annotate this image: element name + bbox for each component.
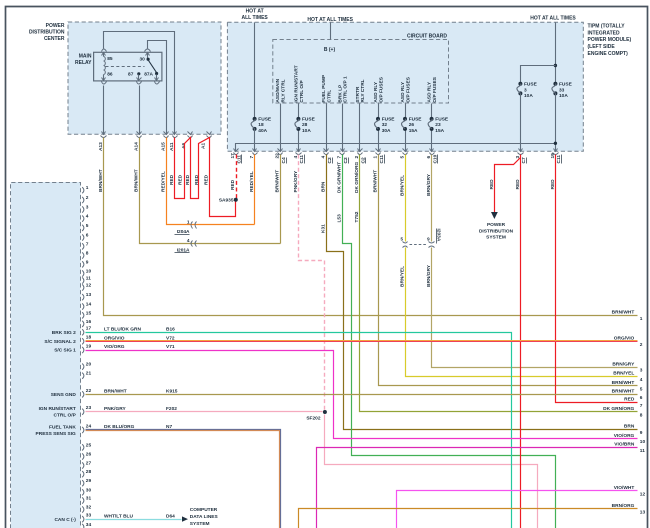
svg-text:17: 17 [230,153,236,159]
svg-text:RED: RED [185,174,191,185]
wire BRN K31 from TIPM pin4 C2 to row9 [327,155,638,430]
svg-text:RED: RED [515,179,521,190]
fuse 3 10A [518,82,522,86]
svg-text:FUSE: FUSE [258,116,272,122]
wire DK BLU/ORG N7 from pin24 [86,430,281,528]
svg-text:SA935: SA935 [219,198,234,204]
svg-text:PNK/GRY: PNK/GRY [293,170,299,192]
svg-text:CTRL O/P 1: CTRL O/P 1 [343,76,349,103]
svg-text:18: 18 [258,122,264,128]
svg-text:7: 7 [337,156,343,159]
svg-text:SYSTEM: SYSTEM [486,235,506,241]
svg-text:SF202: SF202 [306,415,320,421]
svg-text:26: 26 [86,452,92,458]
svg-text:BRN/GRY: BRN/GRY [612,361,635,367]
svg-text:33: 33 [86,513,92,519]
svg-text:28: 28 [86,469,92,475]
wire BRN/WHT from A13 to right edge row1 [104,138,638,316]
bus wire fuse33 to pin17 [236,144,556,151]
svg-text:19: 19 [86,343,92,349]
svg-text:19: 19 [550,153,556,159]
svg-text:RED: RED [194,174,200,185]
wire BRN/WHT from TIPM pin1 C11 to row5 [379,155,638,386]
wire VIO/WHT row12 from bottom [397,491,638,528]
svg-text:87A: 87A [144,71,153,77]
junction bus at fuse33 wire [554,142,557,145]
svg-text:13: 13 [640,509,646,515]
wire RED from TIPM pin19 C11 to row7 [556,155,638,403]
svg-text:12: 12 [640,492,646,498]
inline connector I204A [191,222,193,229]
svg-text:17: 17 [86,326,92,332]
svg-text:29: 29 [86,478,92,484]
svg-text:16: 16 [86,319,92,325]
svg-text:BRN/WHT: BRN/WHT [104,389,127,395]
svg-text:F202: F202 [166,406,177,412]
svg-text:RED/YEL: RED/YEL [160,171,166,192]
svg-text:1: 1 [86,185,89,191]
wire BRN/WHT K915 from pin22 row6 [86,394,638,396]
svg-text:PRESS SENS SIG: PRESS SENS SIG [36,431,77,437]
wire VIO/ORG V71 from pin19 to row10 [86,351,638,439]
svg-text:DK GRN/ORG: DK GRN/ORG [354,162,360,193]
svg-text:CENTER: CENTER [44,36,65,42]
TIPM bottom terminals [234,149,239,152]
relay terminal arcs and arrows [102,49,107,52]
svg-text:30A: 30A [382,128,391,134]
svg-text:2: 2 [86,195,89,201]
svg-text:3: 3 [524,87,527,93]
fuse 26 15A [403,117,407,121]
svg-text:ASD RLY: ASD RLY [373,81,379,102]
svg-text:33: 33 [559,87,565,93]
svg-text:FUSE: FUSE [559,82,573,88]
wire PNK/GRY from pin23 to SF202 [86,411,323,413]
svg-text:O/P FUSES: O/P FUSES [405,76,411,102]
svg-text:BRN/GRY: BRN/GRY [426,264,432,287]
svg-text:RELAY: RELAY [75,60,92,66]
svg-text:12: 12 [86,283,92,289]
wire relay 86 to A13 (gray) [103,86,105,134]
wire RED dashed from TIPM pin17 to SA935 [236,155,238,199]
svg-text:FUSE: FUSE [382,116,396,122]
svg-text:22: 22 [86,388,92,394]
svg-text:D64: D64 [166,513,175,519]
svg-text:POWER: POWER [46,23,65,29]
svg-text:BRN/WHT: BRN/WHT [612,310,635,316]
svg-text:ASD RLY: ASD RLY [427,81,433,102]
svg-text:3: 3 [86,205,89,211]
svg-text:POWER: POWER [487,222,506,228]
wire BRN/ORG row13 from bottom [299,509,638,528]
svg-text:RLY CTRL: RLY CTRL [280,79,286,102]
svg-text:SYSTEM: SYSTEM [190,521,210,527]
svg-text:32: 32 [86,505,92,511]
wire RED from TIPM pin3 C7 to bottom [520,155,522,528]
svg-text:I204A: I204A [177,229,190,235]
power distribution center box [68,22,221,134]
svg-text:BRN/YEL: BRN/YEL [613,371,634,377]
svg-text:A15: A15 [160,142,166,151]
svg-text:28: 28 [302,122,308,128]
svg-text:BRN/WHT: BRN/WHT [612,380,635,386]
svg-text:7: 7 [640,403,643,409]
svg-text:32: 32 [382,122,388,128]
svg-text:VIO/ORG: VIO/ORG [104,344,125,350]
svg-text:1: 1 [187,219,190,225]
wire BRN/WHT from TIPM pin22 C4 [280,155,282,244]
wire LT BLU/DK GRN B16 from pin17 [86,333,512,528]
svg-text:DATA LINES: DATA LINES [190,514,219,520]
relay pin 87 terminal [137,72,140,75]
svg-text:N7: N7 [166,424,172,430]
svg-text:4: 4 [187,238,190,244]
svg-text:20: 20 [86,362,92,368]
svg-text:HOT AT ALL TIMES: HOT AT ALL TIMES [530,16,576,22]
wire DK GRN/WHT L53 from TIPM pin7 C2 [343,155,556,528]
svg-text:25: 25 [86,442,92,448]
svg-text:2: 2 [640,342,643,348]
splice SA935 [234,198,238,202]
svg-text:3: 3 [640,368,643,374]
svg-text:87: 87 [128,71,134,77]
svg-text:RED: RED [177,174,183,185]
svg-text:DK GRN/WHT: DK GRN/WHT [337,162,343,193]
wire hot-right to fuse 33 [555,23,557,84]
svg-text:COMPUTER: COMPUTER [190,507,218,513]
svg-text:CTRL O/P: CTRL O/P [53,413,76,419]
svg-text:ASD/MAIN: ASD/MAIN [275,78,281,102]
wire PNK/GRY dashed from TIPM pin4 C11 to SF202 [299,155,325,411]
svg-text:BRK LP: BRK LP [337,84,343,103]
wire BRN/GRY from TIPM pin6 C10 to row3 [431,155,433,242]
svg-text:O/P FUSES: O/P FUSES [432,76,438,102]
PDC bottom terminals A13 A14 A15 A11 A6 A1 [102,132,106,135]
inline connector I203A pin5 [403,242,408,244]
svg-text:VIO/WHT: VIO/WHT [614,485,635,491]
svg-text:10A: 10A [559,93,568,99]
svg-text:POWER MODULE): POWER MODULE) [588,37,632,43]
svg-text:IGN RUN/START: IGN RUN/START [39,406,76,412]
svg-text:15A: 15A [409,128,418,134]
svg-text:A1: A1 [201,143,207,149]
svg-text:IGN RUN/START: IGN RUN/START [293,65,299,102]
svg-text:14: 14 [86,302,92,308]
wire relay 87 to A14 (gray) [139,86,141,134]
PCM left connector panel [11,182,81,528]
svg-text:C4: C4 [281,157,287,163]
svg-text:BRN/WHT: BRN/WHT [612,389,635,395]
svg-text:FUSE: FUSE [435,116,449,122]
svg-text:CIRCUIT BOARD: CIRCUIT BOARD [407,34,447,40]
svg-text:DK GRN/ORG: DK GRN/ORG [603,406,634,412]
svg-text:FUEL TANK: FUEL TANK [49,424,76,430]
svg-text:26: 26 [409,122,415,128]
svg-text:STRTR: STRTR [355,86,361,103]
wire ORG/VIO V72 from pin18 row2 [86,340,638,342]
svg-text:BRN/GRY: BRN/GRY [426,173,432,196]
svg-text:CTRL O/P: CTRL O/P [299,80,305,103]
wire branch to fuse 3 [521,66,556,84]
svg-text:BRN/WHT: BRN/WHT [274,170,280,193]
svg-text:FUSE: FUSE [302,116,316,122]
svg-text:5: 5 [399,156,405,159]
svg-text:4: 4 [86,214,89,220]
svg-text:C11: C11 [379,155,385,164]
relay MAIN RELAY box [94,52,162,81]
svg-text:RED: RED [204,174,210,185]
wire relay 30 to A15 (gray) [148,41,167,134]
fuse 23 15A [430,117,434,121]
wire PNK/GRY below SF202 to bottom [325,415,538,528]
svg-text:RED: RED [550,179,556,190]
wire hot-middle to B+ [330,23,332,40]
svg-text:SENS GND: SENS GND [51,392,77,398]
wire fuse33 to pin19 C11 [555,94,557,151]
svg-text:BRN: BRN [320,181,326,192]
svg-text:85: 85 [107,56,113,62]
svg-text:V71: V71 [166,344,175,350]
arrow to computer data lines system [182,516,188,521]
svg-text:RLY CTRL: RLY CTRL [360,79,366,102]
wire WHT/LT BLU D64 from pin33 [86,519,182,521]
svg-text:HOT AT: HOT AT [246,9,264,15]
wire RED branch to power distribution system [495,158,521,213]
svg-text:BRN: BRN [624,424,635,430]
fuse 28 10A [296,117,300,121]
svg-text:ORG/VIO: ORG/VIO [614,336,635,342]
svg-text:DISTRIBUTION: DISTRIBUTION [479,228,514,234]
inline connector I201A [191,241,193,247]
svg-text:RED: RED [230,179,236,190]
svg-text:CTRL: CTRL [326,90,332,103]
left connector pin brackets and numbers [82,187,84,193]
svg-text:DISTRIBUTION: DISTRIBUTION [29,29,65,35]
relay coil 85-86 [103,53,105,57]
svg-text:BRN/ORG: BRN/ORG [612,503,635,509]
svg-text:6: 6 [640,395,643,401]
wire fuse3 to pin3 C7 [520,94,522,151]
fuse 32 30A [376,117,380,121]
relay pin 87A terminal [156,75,158,81]
junction hot-right branch [554,64,557,67]
svg-text:BRN/WHT: BRN/WHT [372,170,378,193]
svg-text:13: 13 [86,292,92,298]
svg-text:22: 22 [274,153,280,159]
svg-text:30: 30 [86,487,92,493]
svg-text:ASD RLY: ASD RLY [400,81,406,102]
svg-text:S/C SIG 1: S/C SIG 1 [54,348,76,354]
svg-text:11: 11 [640,448,645,454]
svg-text:23: 23 [435,122,441,128]
svg-text:9: 9 [640,430,643,436]
svg-text:DK BLU/ORG: DK BLU/ORG [104,424,135,430]
svg-text:8: 8 [640,412,643,418]
svg-text:K31: K31 [320,224,326,233]
svg-text:V72: V72 [166,336,175,342]
svg-text:FUSE: FUSE [409,116,423,122]
svg-text:INTEGRATED: INTEGRATED [588,30,621,36]
wire RED/YEL from A15 to I204A splice line [167,138,255,225]
svg-text:RED: RED [169,174,175,185]
svg-text:18: 18 [86,335,92,341]
svg-text:RED: RED [624,397,635,403]
relay switch blade 30-87A [149,61,157,73]
svg-text:ALL TIMES: ALL TIMES [241,15,268,21]
svg-text:1: 1 [372,156,378,159]
svg-text:11: 11 [86,276,91,282]
svg-text:31: 31 [86,496,92,502]
TIPM box [227,22,583,151]
svg-text:23: 23 [86,405,92,411]
svg-text:L53: L53 [337,214,343,223]
svg-text:FUEL PUMP: FUEL PUMP [321,74,327,102]
wire RED zigzag A11-A6-A1 to splice SA935 [175,138,236,217]
svg-text:S/C SIGNAL 2: S/C SIGNAL 2 [44,339,76,345]
wire relay 85 to A11 (gray) [104,32,175,134]
svg-text:HOT AT ALL TIMES: HOT AT ALL TIMES [307,17,353,23]
svg-text:FUSE: FUSE [524,82,538,88]
svg-text:30: 30 [139,56,145,62]
svg-text:6: 6 [86,233,89,239]
svg-text:TIPM (TOTALLY: TIPM (TOTALLY [588,24,626,30]
wire RED/YEL from TIPM pin7 [254,155,256,225]
fuse 33 10A [553,82,557,86]
svg-text:34: 34 [86,522,92,528]
svg-text:VIO/ORG: VIO/ORG [614,433,635,439]
svg-text:BRN/WHT: BRN/WHT [133,169,139,192]
circuit board box [273,40,449,104]
svg-text:10A: 10A [302,128,311,134]
inline connector I203A pin9 [429,242,435,244]
svg-text:BRN/WHT: BRN/WHT [98,169,104,192]
svg-text:21: 21 [86,371,92,377]
svg-text:15: 15 [86,310,92,316]
relay pin 30 terminal [147,53,149,59]
svg-text:O/P FUSES: O/P FUSES [378,76,384,102]
relay dashed link [106,66,145,68]
svg-text:5: 5 [640,386,643,392]
fuse 18 40A [253,117,257,121]
svg-text:10: 10 [86,269,92,275]
svg-text:86: 86 [107,71,113,77]
svg-text:T752: T752 [354,211,360,222]
svg-text:VIO/BRN: VIO/BRN [614,442,635,448]
svg-text:A14: A14 [133,142,139,151]
wire VIO/BRN row11 from bottom [317,448,638,528]
svg-text:5: 5 [86,223,89,229]
svg-text:BRK SIG 2: BRK SIG 2 [52,330,76,336]
svg-text:4: 4 [320,156,326,159]
wire hot-left to fuse 18 [254,23,256,119]
svg-text:RED/YEL: RED/YEL [249,171,255,192]
svg-text:B16: B16 [166,327,175,333]
svg-text:MAIN: MAIN [79,53,92,59]
svg-text:BRN/YEL: BRN/YEL [399,175,405,196]
svg-text:WHT/LT BLU: WHT/LT BLU [104,513,133,519]
svg-text:8: 8 [86,251,89,257]
I203A tie line and label [410,244,428,246]
wire BRN/YEL from TIPM pin5 to row4 [405,155,407,242]
svg-text:PNK/GRY: PNK/GRY [104,406,126,412]
svg-text:RED: RED [489,179,495,190]
svg-text:CAN C (-): CAN C (-) [54,517,76,523]
svg-text:40A: 40A [258,128,267,134]
svg-text:(LEFT SIDE: (LEFT SIDE [588,44,616,50]
svg-text:24: 24 [86,423,92,429]
svg-text:10A: 10A [524,93,533,99]
svg-text:K915: K915 [166,389,178,395]
svg-text:LT BLU/DK GRN: LT BLU/DK GRN [104,327,141,333]
svg-text:1: 1 [640,316,643,322]
svg-text:27: 27 [86,461,92,467]
svg-text:4: 4 [640,377,643,383]
wire BRN/WHT from A14 to I201A line [140,138,281,244]
wire fuse18 to pin7 [254,129,256,151]
splice SF202 [323,410,327,414]
svg-text:B (+): B (+) [324,47,336,53]
wire DK GRN/ORG T752 from TIPM pin2 C2 to row8 [360,155,638,412]
svg-text:7: 7 [86,241,89,247]
svg-text:BRN/YEL: BRN/YEL [399,266,405,287]
arrow to power distribution system [491,212,498,219]
svg-text:10: 10 [640,439,646,445]
svg-text:9: 9 [86,259,89,265]
svg-text:ORG/VIO: ORG/VIO [104,336,125,342]
svg-text:15A: 15A [435,128,444,134]
svg-text:C2: C2 [327,157,333,163]
svg-text:ENGINE COMPT): ENGINE COMPT) [588,51,629,57]
